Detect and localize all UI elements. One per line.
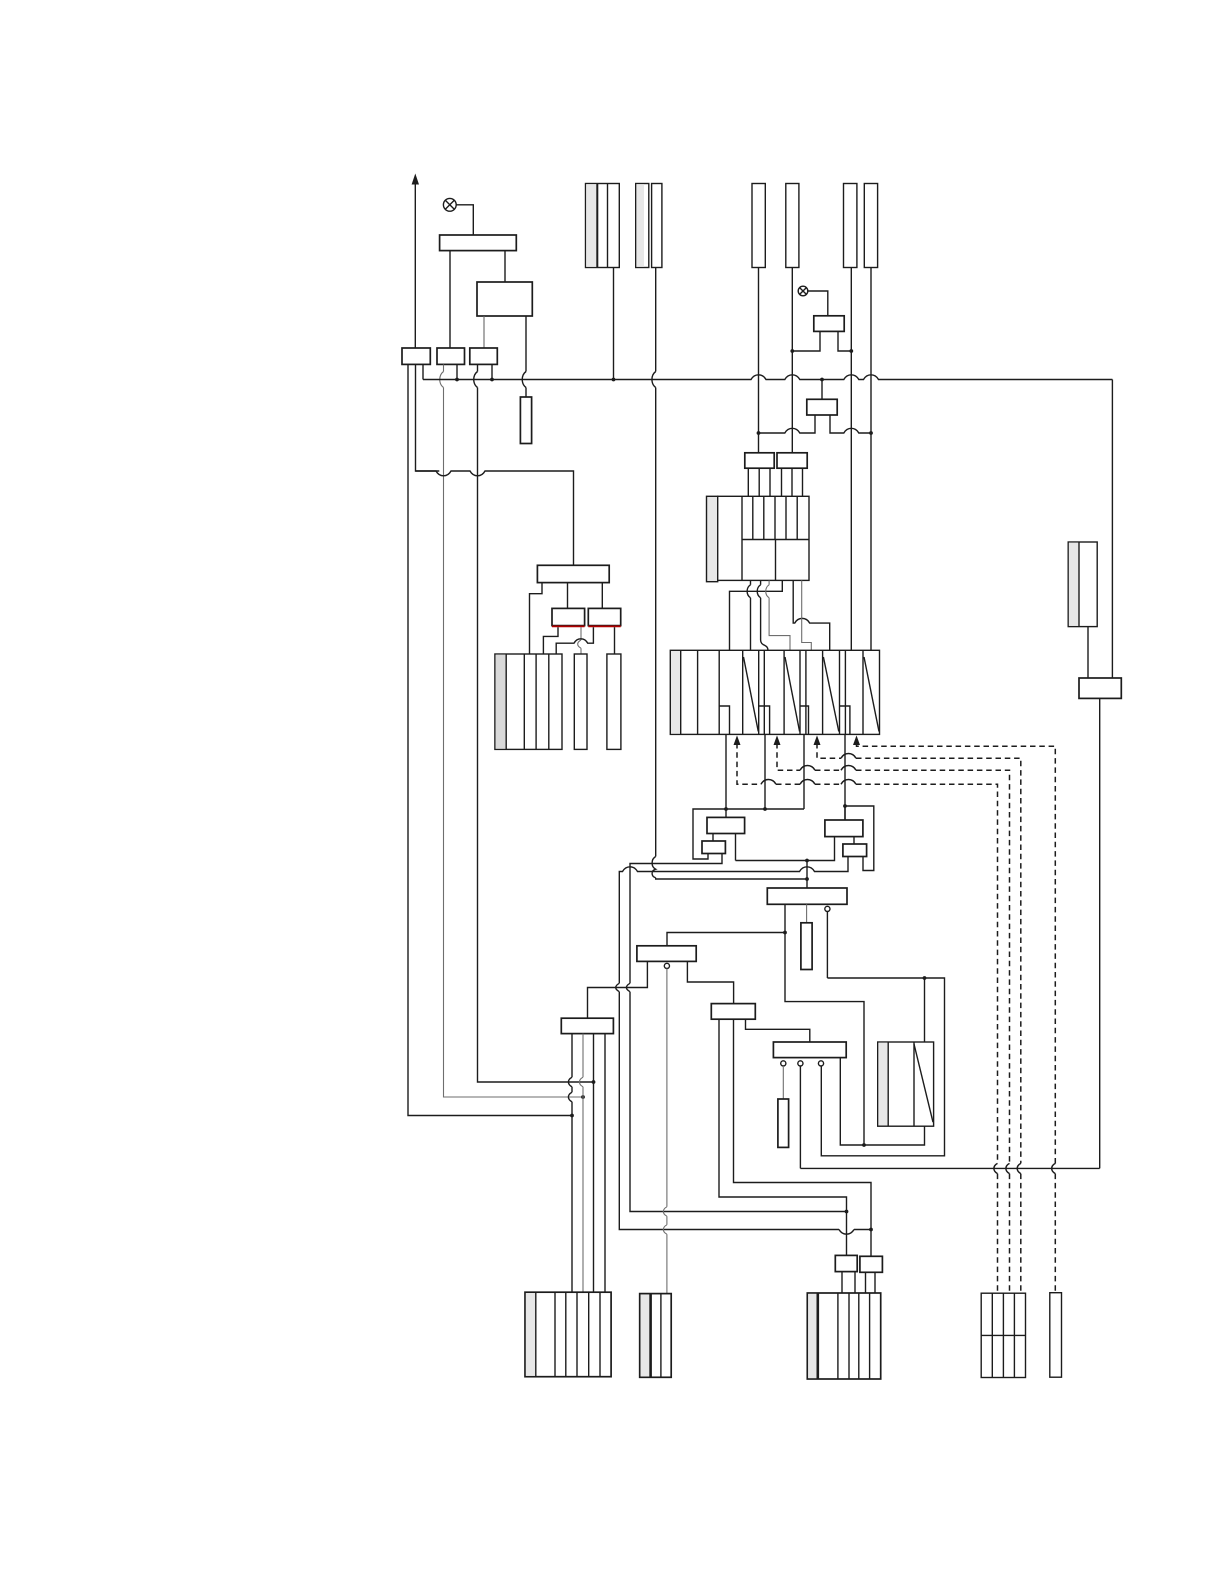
junction dot 845/806 — [843, 804, 847, 808]
wire W3 top lead to W1 lead (h932.5) — [667, 933, 785, 946]
wire boxA left lead to R2 — [792, 331, 820, 351]
SB notch contacts — [719, 706, 850, 734]
wire h860.5 (boxE to boxG, dot at 807) — [736, 837, 835, 861]
box RB — [1079, 678, 1121, 698]
connector XN (narrow) — [1050, 1293, 1062, 1378]
wire bus drop to box RB — [1111, 380, 1113, 679]
SB bottom pin to box G — [844, 734, 846, 820]
dashed control wire 4 — [737, 743, 998, 1293]
wire relay lead1 straight to block — [747, 580, 750, 650]
box W2 — [773, 1042, 846, 1058]
junction dot S2 wire to B1 lead — [581, 1095, 585, 1099]
contact circle W1 — [825, 906, 830, 911]
wire T2 to R5 (hops bus) — [522, 316, 526, 397]
connector X4b — [864, 184, 877, 268]
switch block SB (outer + gray stripe) — [670, 650, 879, 734]
box H — [843, 844, 867, 857]
lamp E2 — [798, 286, 808, 296]
wire T1 to S2 — [449, 251, 451, 348]
box S2 — [437, 348, 465, 364]
wire boxB left lead to R1 (hops R2) — [759, 415, 816, 433]
box B — [807, 399, 837, 415]
relay block REL1 (gray bar) — [707, 496, 810, 581]
wire relay lead2 jog to block pin 768 — [757, 580, 768, 650]
connector XL (bottom-left, gray stripe) — [525, 1292, 611, 1377]
bus wire y=379.5 with hops — [423, 375, 1112, 380]
wire boxE to boxF — [712, 834, 714, 842]
contact circle W2 b — [798, 1061, 803, 1066]
SB diagonal contacts — [744, 657, 880, 732]
wire T3 lead1 to X5 — [530, 583, 543, 654]
contact circle W2 c — [818, 1061, 823, 1066]
connector XM (gray stripe + thick bar) — [640, 1294, 672, 1378]
wire T3 lead2 to redL — [567, 583, 569, 609]
box S1 — [402, 348, 430, 364]
wire X2b long (down, hops bus, becomes y879 line) — [652, 268, 807, 880]
junction dot S1 wire to B1 lead — [570, 1114, 574, 1118]
wire T1 to T2 — [504, 251, 506, 282]
wire X1 to bus — [613, 268, 615, 380]
SB bottom pin to box E — [725, 734, 727, 817]
junction dot h809 at 765 — [763, 807, 767, 811]
junction dot bus/boxB — [820, 378, 824, 382]
wire R1 (X3a down to box C, hops bus) — [758, 268, 760, 453]
connector X5 (gray stripe) — [495, 654, 562, 749]
resistor TH1 — [801, 923, 812, 970]
wire W1 circle to relay R2 net (y978, down 944.5, left 1155.8, up to W2 circle3) — [821, 912, 944, 1156]
wire lamp E1 to box T1 — [456, 205, 473, 235]
junction dot bus — [455, 378, 459, 382]
wire S3 right lead to bus — [491, 364, 493, 379]
box F — [702, 841, 725, 854]
junction dot 864/1145 — [862, 1143, 866, 1147]
dashed arrowheads at SB bottom — [853, 735, 860, 745]
wire W3 right lead to B2 top — [687, 961, 733, 1003]
connector X2b — [652, 184, 662, 268]
connector N2 — [607, 654, 621, 749]
contact circle W3 — [664, 963, 669, 968]
wire W3 circle long (thin) to XM connector — [663, 969, 667, 1294]
wire R2 (X3b down to box D, hops bus) — [791, 268, 793, 453]
junction dot bus — [490, 378, 494, 382]
junction dot R4/boxB — [869, 431, 873, 435]
wire W2 circle b to RB net (y1168.4) — [800, 1066, 1099, 1168]
wire S1 right lead to bus start — [422, 364, 424, 379]
SB bottom pin 765 — [764, 734, 766, 809]
box B1 — [561, 1018, 613, 1033]
dashed control wire 1 (to narrow connector XN) — [857, 743, 1056, 1293]
arrow (up, top-left output) — [412, 174, 419, 349]
junction dot R1/boxB — [757, 431, 761, 435]
wire W3 left lead to B1 (h987.5) — [588, 961, 648, 1018]
wire R2 top lead — [924, 978, 926, 1042]
wire boxG to boxH — [853, 837, 855, 844]
box redL (red underline) — [552, 608, 585, 626]
box C — [745, 453, 774, 468]
wire B2 lead2 to K2 (via h1182.5) — [734, 1019, 872, 1256]
box K2 — [860, 1256, 883, 1272]
wire W2 circle a (thin) to TH2 — [782, 1066, 784, 1099]
pins box D to relay — [782, 468, 803, 496]
wire boxA right lead to R3 — [838, 331, 851, 351]
pin B1 lead a (to XL, dot at 1115.5) — [568, 1034, 572, 1293]
wire boxH left lead + h871.5 going left, down at 619.3 — [616, 857, 871, 1235]
box W3 — [637, 946, 696, 962]
wire RB bottom long (down then left to W2 circuit) — [1099, 698, 1101, 1168]
junction dot h1229.5/K2 lead — [869, 1228, 873, 1232]
connector X4a — [844, 184, 857, 268]
connector XR (gray stripe + thick bar) — [807, 1293, 880, 1379]
wire relay lead6 (thin) to block pin 811.3 — [802, 580, 812, 650]
wire R4 (X4b down to slashed block, hops bus) — [870, 268, 872, 651]
relay R2 (gray stripe + diagonal) — [878, 1042, 934, 1126]
wire SB pin845 dot to boxG and boxH wrap — [845, 806, 874, 871]
pins K1 to XR — [842, 1272, 855, 1293]
wire relay lead3 (thin) to block pin 790 — [766, 580, 790, 650]
wire relay lead5 to block pin 829.7 (hops lead6) — [793, 580, 830, 650]
wire S1 lead left (long, to left-bottom bundle) — [408, 364, 572, 1115]
junction dot h1211.5/K1 lead — [845, 1210, 849, 1214]
connector X2a (gray) — [636, 184, 649, 268]
resistor R5 — [520, 397, 531, 444]
box D — [777, 453, 807, 468]
wire B2 right stub to W2 top — [746, 1019, 810, 1042]
wire redL lead1 to X5 — [543, 627, 558, 654]
box B2 — [711, 1004, 755, 1020]
connector X3a — [752, 184, 765, 268]
wire S1 mid lead to T3 feed line — [416, 364, 440, 471]
junction dot h809 at 726 — [724, 807, 728, 811]
box K1 — [835, 1255, 857, 1271]
box A — [814, 316, 844, 332]
SB bottom pin 804 — [803, 734, 805, 809]
wire bus to box B — [821, 380, 823, 400]
box T1 — [440, 235, 517, 251]
wire y471 feed to T3 (hops at 443.5 and 477.5) — [416, 471, 574, 565]
wire redR lead1 to X5 (hops thin lead) — [556, 627, 593, 654]
wire S3 left lead (long, hops bus and y471) — [474, 364, 594, 1082]
connector X1 (tall, gray stripe) — [586, 184, 620, 268]
junction dot R2/boxA — [790, 349, 794, 353]
box T3 — [537, 565, 609, 582]
pins box C to relay — [748, 468, 770, 496]
lamp E1 — [443, 198, 456, 211]
wire W2 right lead to R2 bottom (bracket, dot at 864) — [840, 1058, 924, 1145]
wire boxE right lead to h860.5 — [735, 834, 737, 861]
junction dot y978 / R2 top — [923, 976, 927, 980]
pins K2 to XR — [866, 1272, 876, 1293]
box S3 — [470, 348, 498, 364]
connector RG (right, gray stripe) — [1068, 542, 1097, 627]
junction dot X1 bus — [612, 378, 616, 382]
wire boxF right lead + h863.5 going left, down at 630 — [626, 854, 846, 1212]
wire S2 right lead to bus — [456, 364, 458, 379]
connector XG (2x4 grid) — [981, 1293, 1025, 1377]
box G — [825, 820, 863, 837]
dashed control wire 3 — [777, 743, 1010, 1293]
wire relay lead4 to block pin 729.5 (hops leads 1-3) — [730, 580, 783, 650]
wire h809 (SB pin804 to left bracket, dots at 726/765) — [693, 809, 804, 859]
wire W1 left lead long (dot at 932.5, right at 1001.6, down to 1145 dot) — [785, 904, 864, 1145]
box E — [707, 817, 745, 833]
resistor TH2 — [778, 1099, 789, 1147]
wire W1 mid lead (thin) to TH1 — [806, 904, 808, 923]
box W1 — [767, 888, 847, 904]
wire B2 lead1 to K1 (via h1197) — [719, 1019, 847, 1255]
wire RG to box RB — [1087, 627, 1089, 678]
wire R3 (X4a down to slashed block, hops bus) — [850, 268, 852, 651]
junction dot R3/boxA — [849, 349, 853, 353]
pin B1 lead d — [604, 1034, 606, 1293]
wire T3 lead3 to redR — [601, 583, 603, 609]
wire boxB right lead to R4 (hops R3) — [830, 415, 871, 433]
wire T2 to S3 — [483, 316, 485, 348]
junction dot W1 lead / W3 top line — [783, 931, 787, 935]
junction dot y879 at W1 top lead — [805, 877, 809, 881]
wire lamp E2 to box A — [808, 291, 828, 316]
dashed control wire 2 — [817, 743, 1021, 1293]
box T2 — [477, 282, 532, 316]
junction dot S3 wire to B1 lead — [592, 1080, 596, 1084]
connector X3b — [786, 184, 799, 268]
pin B1 lead b (dot at 1097) — [579, 1034, 583, 1293]
wire redL lead2 (thin) to N1 — [578, 627, 581, 654]
pin B1 lead c (dot at 1082) — [593, 1034, 595, 1293]
contact circle W2 a — [781, 1061, 786, 1066]
connector N1 — [574, 654, 587, 749]
wire S2 left lead (long gray, hops bus and y471) — [440, 364, 583, 1097]
box redR (red underline) — [588, 608, 620, 626]
wire W1 top lead (from h860.5 dot through h879 dot) — [806, 861, 808, 889]
junction dot h860.5/W1 top — [805, 859, 809, 863]
wire redR lead2 to N2 — [614, 627, 616, 654]
